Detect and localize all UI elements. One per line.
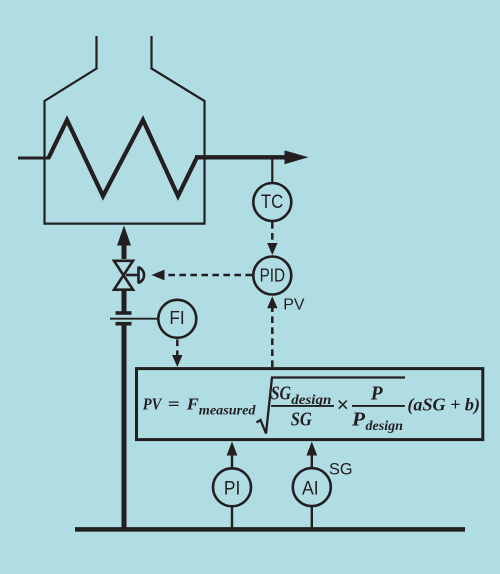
svg-text:PV: PV <box>142 395 163 414</box>
svg-text:×: × <box>336 392 349 417</box>
control valve (bowtie) <box>114 261 133 290</box>
arrowhead at actuator <box>152 270 165 281</box>
formula box <box>137 369 483 440</box>
orifice flange bottom bar <box>116 322 132 326</box>
svg-text:AI: AI <box>302 479 319 500</box>
arrowhead into PID top <box>267 243 277 255</box>
wire AI to box (signal) <box>311 454 313 468</box>
radical sign <box>257 378 406 434</box>
svg-text:P: P <box>351 409 366 431</box>
pipe valve to orifice <box>122 290 127 313</box>
svg-text:PV: PV <box>283 296 305 313</box>
arrowhead AI into box bottom <box>306 442 317 456</box>
svg-text:P: P <box>370 383 383 405</box>
svg-text:PI: PI <box>224 479 240 500</box>
instrument PI <box>213 468 251 506</box>
fraction 2 bar <box>352 405 405 407</box>
wire outlet pipe <box>195 155 288 159</box>
arrowhead into PID bottom <box>267 296 277 308</box>
arrowhead PI into box bottom <box>227 442 238 456</box>
svg-text:FI: FI <box>169 307 184 328</box>
pipe from valve into vessel bottom <box>122 244 127 259</box>
dashed signal PID to valve actuator <box>165 274 252 277</box>
heating coil (zigzag) <box>49 120 198 196</box>
wire AI to header <box>311 507 313 529</box>
feed pipe (orifice to bottom header) <box>122 324 127 530</box>
svg-text:measured: measured <box>199 404 257 419</box>
instrument FI <box>158 300 196 338</box>
outlet arrowhead <box>285 150 309 164</box>
svg-text:SG: SG <box>291 409 312 431</box>
instrument AI <box>293 468 331 506</box>
instrument PID <box>253 257 291 295</box>
wire PI to header <box>231 507 233 529</box>
svg-text:TC: TC <box>261 192 283 213</box>
bottom header pipe <box>75 527 465 532</box>
wire inlet line to coil <box>18 157 50 160</box>
vessel V1 (tank with open funnel neck) <box>45 36 205 224</box>
orifice flange top bar <box>116 311 132 315</box>
svg-text:=: = <box>168 395 180 414</box>
wire tap down to TC <box>271 157 273 182</box>
svg-text:SG: SG <box>271 383 292 405</box>
wire orifice tap to FI <box>110 318 158 320</box>
formula: PV = F_measured sqrt(SG_design/SG x P/P_design)(aSG+b) <box>142 378 480 435</box>
dashed signal TC to PID <box>271 222 274 245</box>
svg-text:PID: PID <box>260 265 286 285</box>
dashed signal formula box to PID (PV input) <box>271 308 274 367</box>
fraction 1 bar <box>271 405 334 407</box>
arrowhead into box top <box>172 355 182 367</box>
svg-text:(aSG + b): (aSG + b) <box>407 395 480 415</box>
instrument TC <box>253 183 291 221</box>
valve actuator stem <box>126 274 139 277</box>
arrowhead into vessel <box>117 226 131 246</box>
dashed signal FI to formula box <box>176 340 179 357</box>
svg-text:design: design <box>366 419 404 434</box>
wire PI to box (signal) <box>231 454 233 468</box>
svg-text:SG: SG <box>329 460 353 478</box>
svg-text:F: F <box>186 395 200 414</box>
valve actuator (D) <box>139 267 145 284</box>
